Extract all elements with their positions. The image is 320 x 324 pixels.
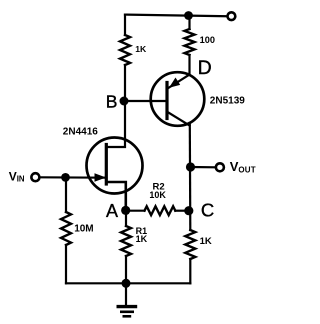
transistor Q emitter diagonal: [168, 75, 190, 89]
wire A to R1: [125, 210, 127, 226]
resistor 100: [185, 29, 195, 55]
wire bottom rail: [66, 282, 190, 284]
junction dot ground: [122, 279, 131, 288]
svg-text:10M: 10M: [74, 224, 93, 235]
wire base lead B to Q1: [124, 100, 167, 102]
svg-text:C: C: [201, 200, 214, 221]
wire Vin to gate: [41, 176, 107, 179]
ground stem: [125, 283, 127, 305]
svg-text:B: B: [106, 92, 118, 112]
transistor J1 channel bar: [105, 145, 108, 185]
svg-text:100: 100: [200, 35, 215, 45]
junction dot Vin / 10M: [61, 173, 70, 182]
node C junction dot: [184, 206, 193, 215]
node A junction dot: [121, 206, 130, 215]
svg-text:10K: 10K: [149, 190, 166, 200]
terminal Vout open circle: [216, 163, 224, 171]
wire 1K upper lead: [124, 15, 126, 35]
resistor R2 10K: [145, 206, 176, 215]
transistor Q base bar: [165, 83, 168, 119]
resistor R1 1K: [121, 226, 131, 256]
transistor Q 2N5139 circle: [151, 72, 205, 126]
wire 10M upper lead: [65, 178, 67, 213]
ground symbol bars: [117, 307, 138, 317]
svg-text:2N5139: 2N5139: [210, 96, 245, 107]
transistor J1 2N4416 circle: [87, 138, 143, 194]
wire 1K lower lead to node B and down into JFET drain: [107, 65, 126, 147]
terminal Vin open circle: [31, 173, 39, 181]
junction dot top rail / 100: [184, 11, 193, 20]
wire top rail: [125, 15, 227, 17]
wire A to R2: [126, 210, 145, 212]
svg-text:1K: 1K: [200, 236, 212, 247]
svg-text:A: A: [106, 201, 118, 221]
transistor J1 gate arrow: [95, 173, 107, 182]
terminal top right open circle: [228, 12, 236, 20]
junction dot Vout: [186, 162, 195, 171]
svg-text:1K: 1K: [135, 44, 147, 54]
wire collector rail down to node C: [189, 123, 192, 230]
svg-text:2N4416: 2N4416: [63, 127, 98, 138]
transistor Q emitter arrow: [169, 78, 180, 88]
svg-text:D: D: [198, 57, 212, 79]
svg-text:1K: 1K: [136, 234, 148, 244]
transistor Q collector diagonal: [168, 112, 190, 126]
wire R1 lower lead: [125, 256, 127, 283]
wire 100 lower lead to Q emitter: [188, 55, 190, 75]
wire J1 source lead to node A: [106, 182, 126, 210]
node B junction dot: [120, 97, 129, 106]
resistor 1K (top left): [120, 35, 130, 65]
resistor 10M: [61, 212, 71, 245]
resistor 1K (lower right): [185, 230, 195, 259]
wire 100 upper lead: [188, 16, 190, 30]
wire R2 to C: [175, 210, 189, 212]
wire 10M lower lead: [65, 245, 67, 283]
wire Vout stub: [191, 166, 215, 169]
wire 1K lower lead to bottom rail: [189, 259, 191, 283]
